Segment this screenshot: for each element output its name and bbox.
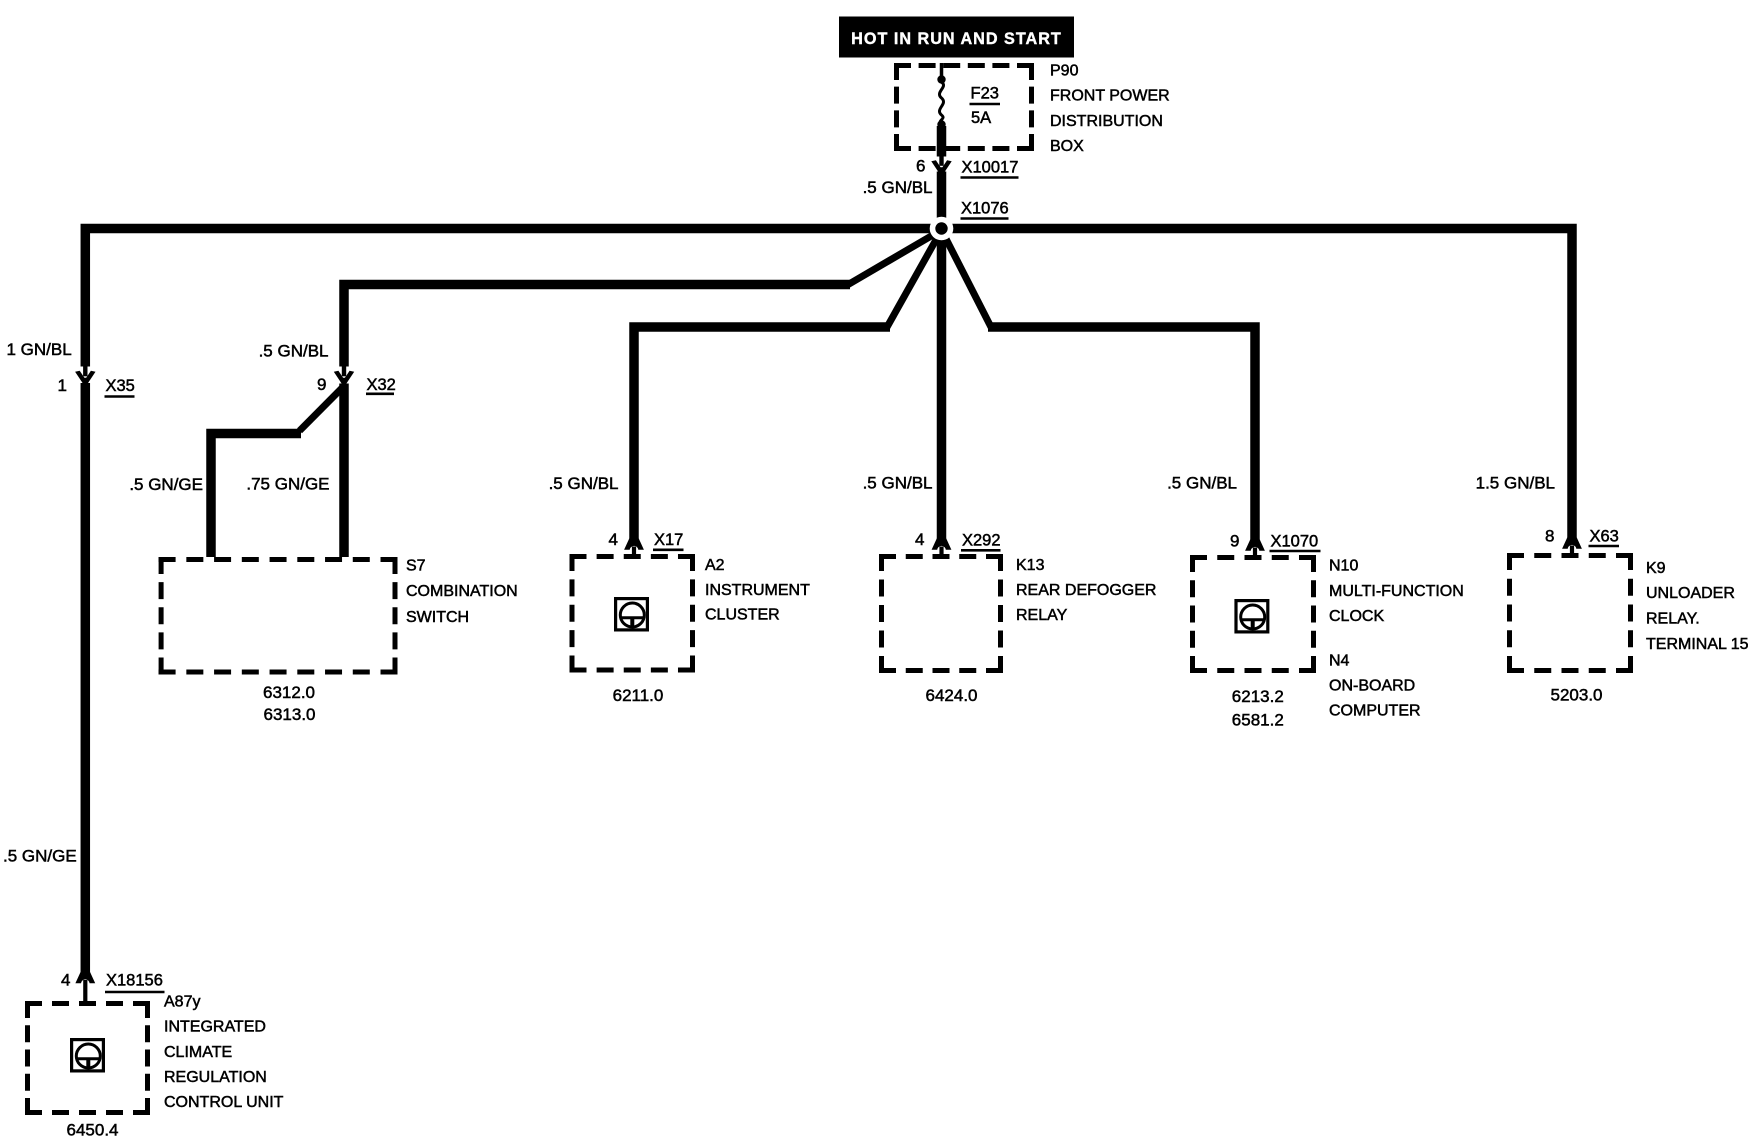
svg-text:REAR DEFOGGER: REAR DEFOGGER (1016, 582, 1156, 599)
wire: X32 to S7 left lead (.5 GN/GE) (300, 387, 344, 431)
N10 multi-function clock box (1190, 555, 1316, 673)
svg-text:N4: N4 (1329, 653, 1350, 670)
connector name X1070 (1270, 533, 1321, 552)
connector name X18156 (105, 972, 165, 993)
svg-text:6312.0: 6312.0 (263, 683, 315, 702)
svg-text:N10: N10 (1329, 558, 1358, 575)
connector name X292 (961, 532, 1001, 551)
svg-text:COMBINATION: COMBINATION (406, 583, 518, 600)
svg-text:RELAY.: RELAY. (1646, 611, 1700, 628)
svg-text:4: 4 (609, 530, 618, 549)
connector X32 (334, 366, 354, 384)
svg-text:X292: X292 (962, 532, 1001, 550)
wire: X32 to S7 right lead (.75 GN/GE) (339, 384, 349, 558)
svg-text:BOX: BOX (1050, 138, 1084, 155)
connector X10017 (pin 6) on fuse wire (931, 156, 951, 174)
sheet refs 6312.0 / 6313.0 (263, 683, 316, 724)
svg-text:1 GN/BL: 1 GN/BL (7, 340, 72, 359)
steering wheel icon (N10) (1236, 601, 1268, 632)
K13 label (1016, 557, 1156, 624)
S7 combination switch box (159, 557, 398, 675)
svg-text:X35: X35 (106, 377, 135, 395)
svg-text:5A: 5A (971, 109, 991, 127)
svg-text:CLIMATE: CLIMATE (164, 1044, 232, 1061)
svg-text:6: 6 (916, 157, 925, 176)
connector X18156 at climate control unit (75, 972, 95, 1002)
svg-text:X18156: X18156 (106, 972, 163, 990)
svg-text:UNLOADER: UNLOADER (1646, 585, 1735, 602)
svg-text:MULTI-FUNCTION: MULTI-FUNCTION (1329, 583, 1464, 600)
svg-text:ON-BOARD: ON-BOARD (1329, 678, 1415, 695)
svg-text:INSTRUMENT: INSTRUMENT (705, 582, 810, 599)
svg-text:COMPUTER: COMPUTER (1329, 703, 1421, 720)
svg-text:6581.2: 6581.2 (1232, 711, 1284, 730)
connector X35 (pin 1) on climate-control wire (75, 366, 95, 384)
svg-text:.5 GN/GE: .5 GN/GE (3, 847, 77, 866)
steering wheel icon (A87y) (72, 1040, 104, 1071)
svg-text:X63: X63 (1590, 528, 1619, 546)
svg-text:X32: X32 (367, 376, 396, 394)
svg-text:4: 4 (915, 530, 924, 549)
K9 unloader relay box (1507, 553, 1633, 673)
svg-text:TERMINAL 15: TERMINAL 15 (1646, 636, 1748, 653)
S7 label (406, 558, 518, 627)
svg-text:X10017: X10017 (962, 159, 1019, 177)
connector name X35 (105, 377, 135, 397)
svg-text:6211.0: 6211.0 (613, 686, 664, 705)
svg-text:HOT IN RUN AND START: HOT IN RUN AND START (851, 30, 1062, 48)
svg-text:.5 GN/BL: .5 GN/BL (549, 474, 619, 493)
A2 label (705, 557, 810, 624)
svg-text:1.5 GN/BL: 1.5 GN/BL (1476, 474, 1555, 493)
svg-text:.5 GN/BL: .5 GN/BL (259, 342, 329, 361)
wire: node diagonal to instrument-cluster branch (X17) (887, 230, 942, 328)
wire: main bus net X1076 with left drop (to X35) and right drop (to X63) (85, 229, 1572, 539)
svg-text:DISTRIBUTION: DISTRIBUTION (1050, 113, 1163, 130)
svg-text:9: 9 (317, 375, 326, 394)
K9 label (1646, 560, 1748, 653)
svg-text:A87y: A87y (164, 994, 200, 1011)
svg-text:S7: S7 (406, 558, 426, 575)
P90 front power distribution box (894, 63, 1034, 151)
svg-text:1: 1 (58, 376, 67, 395)
wire: node diagonal to multi-function clock branch (X1070) (942, 230, 992, 328)
A2 instrument cluster box (570, 554, 696, 673)
svg-text:CLUSTER: CLUSTER (705, 607, 780, 624)
connector X1070 at multi-function clock (1245, 540, 1265, 556)
svg-text:CONTROL UNIT: CONTROL UNIT (164, 1094, 284, 1111)
node name X1076 (961, 200, 1009, 219)
svg-text:.5 GN/GE: .5 GN/GE (129, 475, 203, 494)
svg-text:6450.4: 6450.4 (67, 1121, 119, 1136)
wire: X35 down to X18156 (81, 383, 91, 973)
connector name X10017 (961, 159, 1019, 178)
svg-text:X17: X17 (654, 531, 683, 549)
svg-text:6213.2: 6213.2 (1232, 687, 1284, 706)
svg-text:8: 8 (1545, 527, 1554, 546)
svg-text:A2: A2 (705, 557, 725, 574)
connector name X17 (653, 531, 684, 550)
K13 rear defogger relay box (879, 554, 1003, 673)
title bar HOT IN RUN AND START (839, 17, 1074, 58)
wire: node vertical down to rear-defogger relay (X292) (937, 229, 947, 540)
svg-text:X1070: X1070 (1271, 533, 1319, 551)
P90 label (1050, 63, 1170, 156)
svg-text:FRONT POWER: FRONT POWER (1050, 88, 1170, 105)
svg-text:6313.0: 6313.0 (264, 705, 316, 724)
svg-text:X1076: X1076 (961, 200, 1009, 218)
sheet refs 6213.2 / 6581.2 (1232, 687, 1284, 730)
fuse label F23 / 5A (970, 85, 1001, 128)
svg-text:.5 GN/BL: .5 GN/BL (863, 178, 933, 197)
connector name X63 (1589, 528, 1620, 547)
svg-text:4: 4 (61, 971, 70, 990)
connector X17 at instrument cluster (624, 539, 644, 555)
svg-text:5203.0: 5203.0 (1551, 686, 1603, 705)
connector name X32 (366, 376, 396, 394)
N10 / N4 labels (1329, 558, 1464, 720)
A87y integrated climate regulation control unit box (25, 1001, 150, 1115)
node X1076 junction (white ring + dot) (930, 217, 954, 241)
svg-text:INTEGRATED: INTEGRATED (164, 1019, 266, 1036)
fuse F23 5A (937, 63, 947, 157)
svg-text:.75 GN/GE: .75 GN/GE (246, 475, 329, 494)
svg-text:9: 9 (1230, 532, 1239, 551)
svg-text:RELAY: RELAY (1016, 607, 1068, 624)
wire: fuse output down to node X1076 (937, 172, 947, 234)
A87y label (164, 994, 284, 1112)
connector X292 at rear defogger relay (932, 539, 952, 555)
svg-text:.5 GN/BL: .5 GN/BL (1167, 474, 1237, 493)
svg-text:.5 GN/BL: .5 GN/BL (863, 474, 933, 493)
svg-text:CLOCK: CLOCK (1329, 608, 1384, 625)
svg-text:K13: K13 (1016, 557, 1045, 574)
svg-text:REGULATION: REGULATION (164, 1069, 267, 1086)
svg-text:P90: P90 (1050, 63, 1079, 80)
wire: node diagonal to combination-switch branch (X32) (847, 230, 942, 286)
svg-text:6424.0: 6424.0 (926, 686, 978, 705)
svg-text:SWITCH: SWITCH (406, 609, 469, 626)
connector X63 at unloader relay (1562, 538, 1582, 554)
svg-text:K9: K9 (1646, 560, 1666, 577)
svg-text:F23: F23 (971, 85, 999, 103)
steering wheel icon (A2) (616, 599, 648, 630)
